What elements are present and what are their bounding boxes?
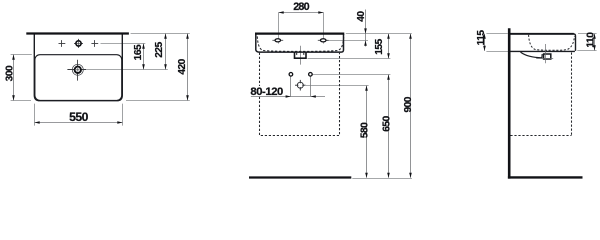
washbasin outline (side) [510,34,575,52]
ext line: drain level to 225 dim [86,69,168,71]
tap hole mark right [91,40,98,47]
hidden front drop (side) [571,53,573,136]
supply connection left [289,73,293,97]
drain stub (side) [544,54,551,59]
ext line: floor level [352,178,412,180]
ext line: 550 left [34,104,36,126]
hidden bottom (side) [510,135,571,137]
ext line: underside right [577,50,596,52]
tap hole centre [74,39,83,48]
wall line (thick) [508,28,511,178]
ext line: supply level [312,74,390,76]
floor line (side, thick) [508,176,583,178]
washbasin inner rim (plan) [35,55,122,101]
dim 650 [387,75,390,178]
ext line: 550 right [122,104,124,126]
ext line: bowl top left [11,54,32,56]
svg-text:155: 155 [374,38,385,54]
dim 550 [35,121,123,124]
hidden bowl line (front) [257,36,343,51]
dim 110 [593,34,596,51]
dim 80-120 [250,86,325,98]
washbasin outline (plan) [34,34,122,101]
ext line: rim level right [578,33,597,35]
svg-text:40: 40 [356,11,367,22]
floor line (front) [249,176,351,178]
dim 900 [409,34,412,178]
hidden recess rectangle [260,53,340,136]
waste position symbol [295,80,306,91]
dim 115 [483,34,486,51]
under-bowl profile [521,52,543,58]
tap hole mark left [59,40,66,47]
ext line: rim level right [346,33,412,35]
ext line: tap level [326,40,368,42]
washbasin outline (front) [256,34,344,52]
tap hole right (front) [318,39,329,42]
back edge (thick) [26,32,129,34]
top edge (side, thick) [510,33,574,35]
dim 165 [142,44,145,70]
svg-text:420: 420 [177,58,188,74]
svg-text:80-120: 80-120 [250,86,283,98]
dim 580 [365,86,368,178]
drain outlet (front) [295,52,307,58]
centreline horizontal (side drain) [536,58,553,60]
ext line: waste level [306,85,369,87]
svg-text:900: 900 [403,96,414,112]
ext line: front edge left [11,100,31,102]
tap hole left (front) [272,39,283,42]
svg-text:650: 650 [382,115,393,131]
dim 280 [279,11,324,14]
dim 225 [164,34,167,70]
ext line: rim level left of wall [486,33,507,35]
svg-text:580: 580 [360,122,371,138]
ext line: tap-hole level to 165 dim [101,43,146,45]
svg-text:225: 225 [154,41,165,57]
svg-text:280: 280 [293,1,309,13]
svg-text:110: 110 [585,32,596,48]
svg-text:115: 115 [476,30,487,46]
svg-text:550: 550 [69,110,88,124]
supply connection right [309,73,313,97]
svg-text:165: 165 [133,44,144,60]
ext line: front edge to 420 dim [126,100,190,102]
centreline drain (front) [300,46,302,65]
dim 40 [364,10,367,47]
svg-text:300: 300 [5,65,16,81]
ext line: underside left of wall [486,51,512,53]
ext line: 280 left [278,13,280,44]
top edge (thick) [255,32,344,34]
centreline vertical (side drain) [545,44,547,63]
ext line: 280 right [323,13,325,44]
dim 420 [186,34,189,101]
dim 155 [387,34,390,59]
ext line: outlet bottom level [308,58,391,60]
ext line: back edge to 420 dim [131,33,190,35]
dim 300 [12,55,15,101]
drain (plan) [67,60,86,81]
hidden bowl line (side) [529,35,575,51]
